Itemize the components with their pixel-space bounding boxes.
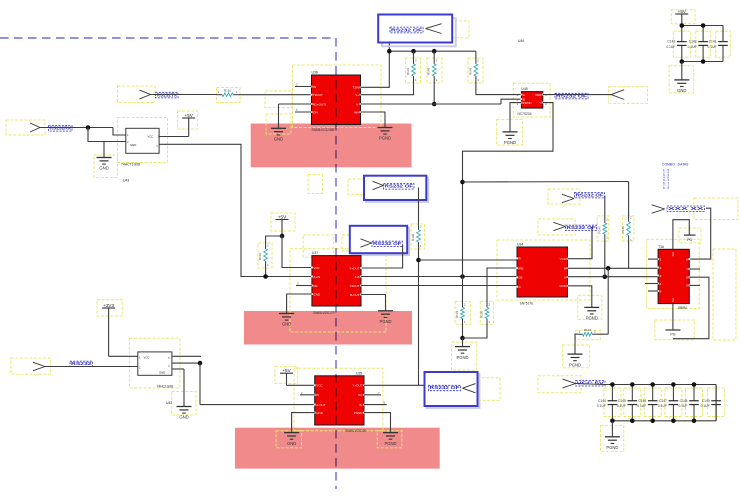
connector P3 [611, 90, 624, 100]
net label OUT4 [429, 385, 461, 391]
svg-text:0.1UF: 0.1UF [701, 404, 710, 408]
wire [463, 103, 554, 182]
svg-text:C142: C142 [689, 40, 697, 44]
svg-text:C144: C144 [598, 399, 606, 403]
svg-text:PGND: PGND [379, 136, 391, 141]
svg-text:GND: GND [282, 322, 291, 327]
wire [172, 369, 184, 407]
capacitor C148 [679, 385, 699, 421]
connector P2 [30, 123, 40, 132]
svg-text:SN75176: SN75176 [520, 302, 534, 306]
resistor R143 [455, 303, 466, 324]
svg-text:R140: R140 [411, 233, 415, 241]
svg-text:+5V: +5V [282, 368, 291, 373]
wire [295, 108, 312, 112]
svg-text:XXX XX: XXX XX [668, 206, 704, 211]
transceiver U35 [314, 371, 367, 433]
wire [568, 227, 593, 259]
svg-text:0.1UF: 0.1UF [658, 404, 667, 408]
wire [172, 362, 200, 364]
svg-text:U44: U44 [518, 39, 524, 43]
svg-text:GND: GND [274, 137, 283, 142]
svg-text:A: A [564, 275, 566, 279]
net label DATA2 [566, 225, 597, 231]
resistor R149 [578, 328, 608, 336]
svg-text:+5V: +5V [678, 9, 687, 14]
svg-text:PG: PG [670, 333, 675, 337]
svg-text:PGND: PGND [569, 362, 581, 367]
wire [604, 239, 606, 277]
wire [361, 31, 476, 87]
connector arrow (port 1) [426, 24, 442, 34]
svg-text:DE: DE [519, 276, 523, 280]
svg-text:C148: C148 [680, 399, 688, 403]
svg-text:VCC: VCC [148, 134, 154, 138]
junction [198, 361, 203, 366]
svg-text:T16: T16 [658, 245, 664, 249]
wire [266, 236, 282, 244]
highlight region 2 (under U37) [244, 311, 412, 345]
svg-text:RS232 OF: RS232 OF [391, 27, 422, 32]
wire [364, 391, 381, 395]
svg-text:GH: GH [671, 252, 675, 257]
junction [603, 274, 608, 279]
port frame 4 [425, 372, 480, 408]
svg-text:IN: IN [316, 393, 319, 397]
ground GND (U35) [284, 433, 299, 446]
wire [109, 308, 138, 356]
svg-text:R143: R143 [455, 310, 459, 318]
wire [672, 304, 674, 330]
connector arrow (port 4) [463, 384, 476, 393]
connector P8 [563, 379, 576, 388]
ground PGND (U34) [584, 307, 599, 320]
svg-text:U42: U42 [166, 401, 172, 405]
wire [88, 128, 126, 142]
resistor R146 [468, 51, 521, 94]
svg-text:0.1UF: 0.1UF [708, 45, 717, 49]
junction [692, 382, 697, 387]
svg-text:Z-B: Z-B [355, 275, 360, 279]
ground PGND (U37) [378, 311, 393, 324]
svg-text:IN: IN [313, 85, 316, 89]
ground GND (U42) [177, 407, 192, 420]
wire [281, 220, 283, 237]
svg-text:Y+OUT: Y+OUT [352, 384, 362, 388]
junction [630, 419, 635, 424]
svg-text:SH: SH [671, 298, 675, 302]
wire [418, 188, 420, 225]
svg-text:PGND: PGND [523, 101, 533, 105]
svg-text:U43: U43 [123, 179, 129, 183]
svg-text:U35: U35 [356, 371, 362, 375]
combo table [662, 163, 689, 190]
power +5V (cap bank) [675, 9, 688, 14]
svg-text:A-OUT: A-OUT [316, 403, 326, 407]
wire [418, 247, 420, 385]
svg-text:VCC: VCC [144, 355, 150, 359]
wire [689, 208, 710, 259]
svg-text:RS232: RS232 [71, 361, 93, 366]
wire [151, 94, 217, 96]
svg-text:C147: C147 [659, 399, 667, 403]
junction [460, 180, 465, 185]
connector arrow (port 3) [361, 239, 372, 247]
wire [517, 93, 548, 106]
svg-text:PGND: PGND [586, 316, 598, 321]
port frame 3 [350, 226, 409, 255]
capacitor C141 [708, 26, 728, 62]
ground PG (top) [684, 235, 696, 242]
transceiver U34 [516, 243, 569, 306]
wire [510, 103, 521, 132]
svg-text:R1+OUT1: R1+OUT1 [313, 102, 327, 106]
resistor R147 [597, 218, 608, 240]
svg-text:VCC: VCC [313, 266, 320, 270]
net label CTRL2 [384, 184, 415, 190]
svg-text:R145: R145 [427, 67, 431, 75]
svg-text:GND: GND [130, 143, 136, 147]
svg-text:DE: DE [313, 284, 317, 288]
svg-text:GND: GND [313, 292, 321, 296]
svg-text:C149: C149 [702, 399, 710, 403]
net label TX0 [555, 93, 588, 99]
wire [361, 99, 522, 104]
wire [682, 61, 723, 63]
transceiver U37 [311, 251, 362, 315]
power +3V3 [102, 303, 115, 308]
wire [575, 334, 578, 354]
svg-text:R150: R150 [480, 310, 484, 318]
power +5V (U35) [280, 368, 293, 373]
svg-text:COMBO : DATAS: COMBO : DATAS [662, 163, 689, 167]
wire [200, 363, 315, 405]
junction [650, 419, 655, 424]
svg-text:PGND: PGND [504, 140, 516, 145]
svg-text:DB9M: DB9M [678, 306, 687, 310]
net label DATA1 [575, 192, 605, 198]
capacitor C144 [597, 385, 617, 421]
svg-text:R148: R148 [621, 226, 625, 234]
gate U43 [121, 128, 160, 182]
svg-text:+5V: +5V [278, 214, 287, 219]
wire [287, 373, 315, 385]
wire [364, 413, 391, 433]
wire [604, 384, 716, 386]
ground PGND (U35) [383, 433, 398, 446]
gate U42 [138, 352, 173, 405]
resistor R144 [361, 51, 418, 94]
highlight region 3 (under U35) [235, 428, 440, 469]
svg-text:R146: R146 [468, 67, 472, 75]
net label RXD2 [49, 126, 73, 132]
ground PGND (column) [455, 347, 470, 360]
junction [606, 266, 611, 271]
wire [715, 385, 717, 421]
svg-text:PGND: PGND [606, 445, 618, 450]
wire [282, 236, 312, 268]
svg-text:B-: B- [360, 403, 363, 407]
wire [292, 413, 315, 433]
svg-text:RS232 OF: RS232 OF [385, 184, 414, 189]
junction [701, 59, 706, 64]
wire [419, 259, 518, 261]
connector P7 [33, 362, 45, 370]
wire [295, 83, 312, 87]
wire [543, 94, 611, 96]
junction [416, 258, 421, 263]
junction [432, 49, 437, 54]
svg-text:B-OUT: B-OUT [350, 293, 360, 297]
wire [361, 245, 403, 268]
svg-text:SN65LVDS180: SN65LVDS180 [345, 429, 367, 433]
junction [387, 49, 392, 54]
svg-text:T2IN: T2IN [352, 86, 359, 90]
wire [364, 401, 387, 405]
svg-text:VDD: VDD [535, 93, 542, 97]
svg-text:C141: C141 [709, 40, 717, 44]
svg-text:PGND: PGND [384, 441, 396, 446]
net label CTRL1 [390, 27, 423, 33]
ground PGND (U36) [378, 128, 393, 141]
wire [568, 286, 592, 308]
ground PGND (cap bank) [605, 437, 620, 450]
svg-text:74HC1G08: 74HC1G08 [157, 384, 174, 388]
svg-text:GND: GND [159, 371, 165, 375]
junction [650, 382, 655, 387]
svg-text:U34: U34 [517, 243, 523, 247]
wire [300, 391, 315, 395]
resistor R101 [217, 89, 239, 97]
svg-text:A+IN: A+IN [313, 275, 320, 279]
net label PORT [667, 206, 705, 212]
svg-text:C145: C145 [618, 399, 626, 403]
svg-text:B: B [564, 267, 566, 271]
connector P6 [652, 205, 665, 213]
wire [682, 26, 723, 41]
wire [287, 294, 312, 314]
capacitor C146 [637, 385, 657, 421]
wire [645, 283, 658, 285]
svg-text:+5V: +5V [185, 113, 194, 118]
wire [681, 14, 683, 26]
svg-text:0.1UF: 0.1UF [666, 45, 675, 49]
wire [673, 220, 689, 250]
wire [612, 420, 716, 422]
connector arrow (port 2) [373, 181, 384, 189]
capacitor C142 [688, 26, 708, 62]
svg-text:U36: U36 [312, 71, 318, 75]
ground GND (cap bank) [674, 62, 689, 94]
svg-text:GND: GND [316, 411, 324, 415]
svg-text:GND: GND [677, 88, 686, 93]
svg-text:8 - 6: 8 - 6 [663, 186, 669, 190]
connector P5 [553, 222, 565, 230]
svg-text:PGND: PGND [354, 411, 364, 415]
svg-text:0.1UF: 0.1UF [597, 404, 606, 408]
svg-text:C146: C146 [638, 399, 646, 403]
wire [361, 276, 517, 278]
power +5V (U37) [276, 214, 289, 219]
junction [610, 382, 615, 387]
wire [40, 128, 126, 136]
wire [673, 277, 709, 339]
wire [648, 290, 658, 292]
svg-text:74HCT1G08: 74HCT1G08 [121, 163, 140, 167]
connector P1 [140, 90, 151, 99]
junction [86, 125, 91, 130]
junction [671, 382, 676, 387]
svg-text:0.1UF: 0.1UF [679, 404, 688, 408]
sheet boundary dashed line [0, 38, 336, 489]
svg-text:R144: R144 [406, 67, 410, 75]
wire [364, 384, 431, 386]
svg-text:GND: GND [179, 415, 188, 420]
capacitor C145 [617, 385, 637, 421]
junction [610, 419, 615, 424]
ground GND [97, 142, 112, 171]
svg-text:GND: GND [559, 284, 567, 288]
svg-text:SN65LVDS179: SN65LVDS179 [313, 311, 335, 315]
svg-text:Y2OUT: Y2OUT [349, 284, 359, 288]
svg-text:PGND: PGND [379, 319, 391, 324]
wire [265, 266, 267, 277]
svg-text:C143: C143 [667, 40, 675, 44]
svg-text:R147: R147 [597, 226, 601, 234]
svg-text:GND: GND [287, 441, 296, 446]
port frame 2 [364, 176, 428, 202]
wire [462, 182, 464, 303]
port frame 1 [378, 15, 456, 47]
svg-text:RS232 OF: RS232 OF [373, 241, 402, 246]
resistor R142 [258, 244, 269, 267]
resistor R148 [621, 216, 632, 242]
svg-text:SN65LVC3238E: SN65LVC3238E [312, 128, 335, 132]
junction [460, 274, 465, 279]
svg-text:/RE: /RE [519, 266, 524, 270]
svg-text:ON: ON [313, 110, 318, 114]
wire [576, 384, 604, 385]
resistor R140 [411, 224, 422, 248]
highlight region 1 (under U36) [251, 124, 412, 168]
net label RXD1 [156, 92, 179, 98]
svg-text:0.1UF: 0.1UF [617, 404, 626, 408]
wire [239, 94, 312, 96]
junction [280, 234, 285, 239]
svg-text:GND: GND [99, 166, 108, 171]
svg-text:VCC: VCC [560, 257, 567, 261]
svg-text:RS232 OF: RS232 OF [430, 385, 461, 390]
net label IN2 [70, 361, 93, 367]
connector T16 [657, 245, 690, 310]
junction [671, 419, 676, 424]
junction [630, 382, 635, 387]
capacitor C149 [701, 385, 721, 421]
svg-text:R142: R142 [258, 252, 262, 260]
junction [263, 274, 268, 279]
wire [462, 323, 464, 338]
junction [432, 102, 437, 107]
svg-text:R149: R149 [584, 328, 592, 332]
svg-text:V+: V+ [355, 93, 359, 97]
junction [692, 419, 697, 424]
svg-text:VCC: VCC [316, 384, 323, 388]
wire [279, 103, 312, 105]
wire [361, 112, 386, 128]
wire [296, 282, 312, 286]
capacitor C143 [666, 26, 686, 62]
connector P4 [562, 194, 574, 202]
net label VCC5 [576, 380, 606, 386]
wire [648, 258, 658, 260]
wire [607, 268, 609, 334]
junction [680, 59, 685, 64]
wire [45, 366, 138, 368]
wire [689, 284, 700, 286]
capacitor C147 [658, 385, 678, 421]
wire [462, 338, 464, 347]
svg-text:U45: U45 [521, 87, 527, 91]
svg-text:V-: V- [356, 102, 359, 106]
ground GND (U36) [271, 104, 286, 142]
svg-text:RS232 OF: RS232 OF [576, 192, 605, 197]
net label CTRL3 [372, 241, 403, 247]
svg-text:R101: R101 [224, 89, 232, 93]
svg-text:NC7SZ04: NC7SZ04 [518, 112, 532, 116]
wire [604, 196, 606, 218]
svg-text:INV: INV [354, 110, 359, 114]
wire [159, 118, 189, 137]
wire [568, 267, 659, 269]
ground PGND (R149) [568, 354, 583, 367]
wire [172, 355, 201, 357]
node U44 [518, 39, 524, 43]
wire [159, 144, 312, 276]
ground PG (bottom) [666, 330, 681, 337]
junction [411, 49, 416, 54]
svg-text:0.1UF: 0.1UF [688, 45, 697, 49]
inverter U45 [518, 87, 544, 116]
junction [701, 23, 706, 28]
wire [611, 421, 613, 437]
junction [460, 336, 465, 341]
svg-text:PGND: PGND [456, 355, 468, 360]
wire [689, 268, 700, 270]
wire [591, 227, 593, 259]
svg-text:0.1UF: 0.1UF [637, 404, 646, 408]
svg-text:+3V3: +3V3 [103, 303, 114, 308]
ground GND (U37) [279, 314, 294, 327]
wire [361, 285, 517, 287]
wire [568, 276, 659, 278]
svg-text:PG: PG [687, 238, 692, 242]
power +5V [182, 113, 195, 118]
svg-text:Y+OUT: Y+OUT [349, 266, 359, 270]
transceiver U36 [311, 71, 362, 132]
wire [463, 181, 629, 184]
wire [628, 182, 630, 217]
wire [628, 241, 630, 268]
svg-text:Y: Y [539, 101, 541, 105]
resistor R145 [427, 51, 438, 104]
junction [680, 23, 685, 28]
svg-text:U37: U37 [312, 251, 318, 255]
svg-text:RS232 OF: RS232 OF [556, 93, 587, 98]
resistor R150 [463, 268, 518, 338]
ground PGND (U45) [503, 132, 518, 145]
wire [361, 295, 386, 311]
svg-text:T2OUT: T2OUT [313, 93, 323, 97]
